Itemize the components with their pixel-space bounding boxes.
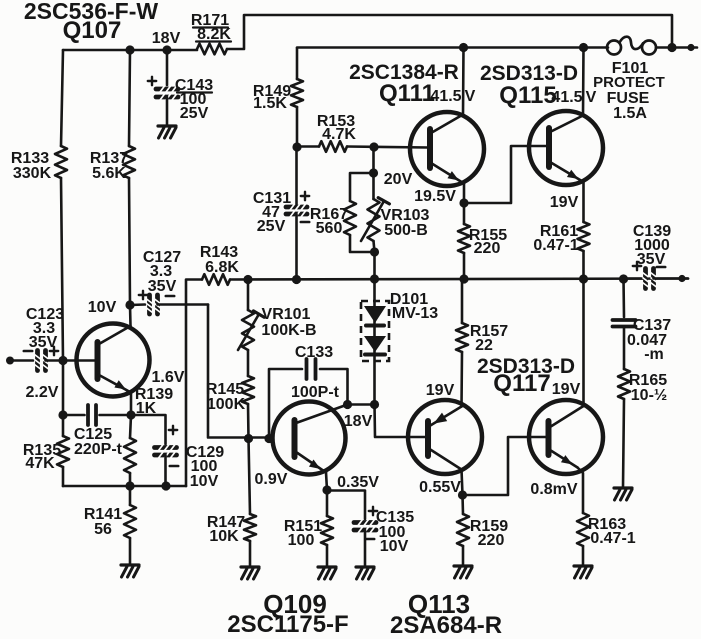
- label 2SD313-D (Q115): [480, 62, 578, 85]
- label 3.3 (C127): [150, 263, 172, 280]
- label C127: [143, 249, 181, 266]
- label 1K: [136, 400, 157, 417]
- label R139: [135, 386, 173, 403]
- label 19V (Q115): [550, 194, 579, 211]
- label 10V (C129): [190, 473, 219, 490]
- label C143: [175, 77, 213, 94]
- label 0.047 (C137): [627, 332, 667, 349]
- node bus junction VR103/D101: [370, 274, 379, 283]
- label 560 (R167): [316, 220, 343, 237]
- resistor R165: [618, 369, 630, 487]
- wire Q117 collector: [550, 279, 584, 427]
- label 2SC1175-F: [227, 611, 348, 638]
- label 100K (R145): [207, 396, 246, 413]
- svg-text:0.47-1: 0.47-1: [533, 237, 578, 254]
- node 18V junction D101 bottom: [370, 400, 379, 409]
- label + C131: [301, 192, 309, 200]
- svg-text:V: V: [586, 89, 597, 106]
- wire Q113 emitter (top): [430, 352, 463, 426]
- label + C143: [148, 77, 156, 85]
- label 47 (C131): [262, 204, 280, 221]
- svg-text:100K: 100K: [207, 396, 246, 413]
- svg-text:2SA684-R: 2SA684-R: [390, 612, 502, 639]
- capacitor C131: [286, 147, 307, 279]
- label Q109 (bottom): [263, 589, 327, 619]
- label R161: [540, 223, 578, 240]
- node junction Q109 emitter/R151/C135: [322, 485, 331, 494]
- svg-text:35V: 35V: [148, 278, 177, 295]
- svg-text:500-B: 500-B: [384, 222, 428, 239]
- svg-text:56: 56: [94, 521, 112, 538]
- label 20V: [384, 171, 413, 188]
- label 100 (R151): [288, 532, 315, 549]
- label C137: [633, 317, 671, 334]
- label 10V: [88, 299, 117, 316]
- node 20V: [369, 168, 378, 177]
- label + C127: [139, 291, 147, 299]
- label 10V (C135): [380, 538, 409, 555]
- svg-text:C133: C133: [295, 344, 333, 361]
- svg-text:35V: 35V: [637, 251, 666, 268]
- label 220P-t: [74, 441, 123, 458]
- label R167: [310, 206, 348, 223]
- svg-text:4.7K: 4.7K: [322, 126, 356, 143]
- svg-text:19V: 19V: [426, 382, 455, 399]
- fuse F101: [607, 37, 656, 55]
- transistor Q109: [273, 402, 346, 475]
- label 2SC1384-R: [349, 61, 459, 84]
- label 220 (R159): [478, 532, 505, 549]
- label + C139: [633, 262, 641, 270]
- resistor R151: [321, 490, 333, 566]
- svg-text:Q117: Q117: [493, 370, 550, 397]
- capacitor C137: [613, 279, 636, 369]
- svg-text:220: 220: [474, 240, 501, 257]
- label 100 (C135): [379, 524, 406, 541]
- label + C135: [369, 507, 377, 515]
- label 35V (C139): [637, 251, 666, 268]
- node bus junction VR101: [243, 275, 252, 284]
- wire Q115 collector: [550, 48, 584, 133]
- potentiometer VR101: [238, 280, 264, 377]
- label 2.2V: [26, 384, 59, 401]
- wire Q111 emitter to Q115 base: [464, 146, 547, 203]
- label 0.47-1 (R163): [590, 530, 635, 547]
- svg-text:0.9V: 0.9V: [255, 471, 288, 488]
- node terminal input: [6, 357, 14, 365]
- wire C133 loop: [269, 359, 348, 439]
- wire R149 to node: [296, 107, 299, 147]
- label C123: [26, 306, 64, 323]
- transistor Q117: [529, 400, 603, 474]
- capacitor C129: [131, 415, 177, 486]
- svg-text:0.35V: 0.35V: [337, 474, 379, 491]
- label R151: [284, 518, 322, 535]
- capacitor C125: [63, 405, 131, 425]
- label 19V (Q113): [426, 382, 455, 399]
- resistor R155: [458, 203, 470, 279]
- svg-text:0.55V: 0.55V: [419, 479, 461, 496]
- node junction fuse/top-wire: [667, 43, 676, 52]
- wire emitter bottom rail: [63, 485, 186, 488]
- label 47K: [25, 455, 55, 472]
- ground (R163): [574, 566, 592, 578]
- label R137: [90, 150, 128, 167]
- label F101: [612, 60, 649, 77]
- label Q117: [493, 370, 550, 397]
- label 2SD313-D (Q117): [477, 355, 575, 378]
- svg-text:100: 100: [288, 532, 315, 549]
- label - C139: [657, 266, 665, 269]
- svg-text:V: V: [465, 88, 476, 105]
- ground (C143): [158, 126, 176, 138]
- wire R153 lead left: [297, 145, 319, 148]
- label 56: [94, 521, 112, 538]
- label R155: [469, 227, 507, 244]
- svg-text:560: 560: [316, 220, 343, 237]
- wire Q107 emitter: [99, 375, 131, 415]
- label 25V (C131): [257, 218, 286, 235]
- label 41.5V (Q111): [430, 88, 475, 105]
- svg-text:41.5: 41.5: [551, 89, 582, 106]
- node junction Q111 emitter/R155/Q115 base: [459, 198, 468, 207]
- ground (R159): [454, 566, 472, 578]
- node 18V junction (C143): [162, 45, 171, 54]
- wire 18V node segment: [348, 403, 375, 406]
- label 0.47-1 (R161): [533, 237, 578, 254]
- resistor R159: [457, 495, 469, 565]
- svg-text:220P-t: 220P-t: [74, 441, 123, 458]
- label 100K-B: [261, 322, 316, 339]
- svg-text:10V: 10V: [380, 538, 409, 555]
- svg-text:25V: 25V: [257, 218, 286, 235]
- svg-text:2SC1175-F: 2SC1175-F: [227, 611, 348, 638]
- svg-text:10V: 10V: [190, 473, 219, 490]
- capacitor C135: [327, 491, 376, 567]
- label + C129: [169, 426, 177, 434]
- node bus junction C131: [292, 275, 301, 284]
- svg-text:25V: 25V: [180, 105, 209, 122]
- label 19V (Q117): [552, 381, 581, 398]
- capacitor C127: [130, 295, 208, 314]
- node terminal speaker +: [687, 44, 697, 51]
- svg-text:VR101: VR101: [262, 306, 311, 323]
- label 8.2K: [196, 26, 231, 43]
- resistor R163: [577, 513, 589, 565]
- svg-text:Q115: Q115: [499, 82, 556, 109]
- node rail junction Q111 collector: [459, 43, 468, 52]
- svg-text:19V: 19V: [550, 194, 579, 211]
- wire Q111 collector: [431, 48, 464, 134]
- label VR103: [381, 207, 430, 224]
- resistor R137: [123, 50, 135, 305]
- svg-text:Q107: Q107: [63, 17, 122, 44]
- wire R167 bottom lead: [350, 235, 375, 252]
- wire Q109 collector: [296, 405, 348, 424]
- svg-text:0.8mV: 0.8mV: [530, 481, 577, 498]
- label C135: [376, 509, 414, 526]
- label 25V (C143): [180, 105, 209, 122]
- node 18V junction (R137/Q107 collector): [125, 45, 134, 54]
- label R157: [470, 323, 508, 340]
- svg-text:100K-B: 100K-B: [261, 322, 316, 339]
- label 6.8K: [205, 259, 239, 276]
- label R143: [200, 244, 238, 261]
- node junction C133/Q109 base wire: [264, 434, 273, 443]
- diode D101b: [364, 336, 386, 355]
- label 100P-t (C133): [291, 384, 340, 401]
- resistor R145: [242, 376, 254, 439]
- svg-text:20V: 20V: [384, 171, 413, 188]
- transistor Q107: [77, 324, 150, 397]
- wire R153 to Q111 base: [347, 147, 428, 148]
- ground (R147): [241, 567, 259, 579]
- node bus junction R161/Q117 collector: [579, 274, 588, 283]
- label 35V (C123): [29, 334, 58, 351]
- label 1.5A: [613, 105, 647, 122]
- svg-text:10V: 10V: [88, 299, 117, 316]
- label 18V (Q109 collector): [344, 413, 373, 430]
- transistor Q113: [408, 400, 482, 474]
- svg-text:330K: 330K: [13, 165, 52, 182]
- label 500-B: [384, 222, 428, 239]
- label C131: [253, 190, 291, 207]
- label - C135: [366, 538, 374, 541]
- resistor R133: [55, 50, 67, 360]
- label Q111: [379, 80, 435, 107]
- wire Q111 emitter: [431, 163, 464, 203]
- label - C123: [24, 350, 32, 353]
- node junction C123/R133/Q107 base: [58, 356, 67, 365]
- ground (R151): [318, 567, 336, 579]
- label VR101: [262, 306, 311, 323]
- label 220 (R155): [474, 240, 501, 257]
- label R171: [191, 12, 229, 29]
- node 10V junction: [125, 300, 134, 309]
- label FUSE: [607, 90, 650, 107]
- capacitor C143: [156, 50, 178, 125]
- label 1.6V: [152, 369, 185, 386]
- label - C131: [301, 221, 309, 224]
- resistor R157: [456, 279, 468, 352]
- wire output bus: [230, 279, 688, 280]
- label R147: [207, 514, 245, 531]
- label 2SA684-R: [390, 612, 502, 639]
- label 2SC536-F-W: [24, 0, 158, 24]
- label C129: [186, 444, 224, 461]
- wire R143 left arm: [186, 280, 202, 487]
- svg-text:10-½: 10-½: [631, 387, 667, 404]
- svg-text:-m: -m: [644, 346, 664, 363]
- wire C127 to Q109 base: [208, 305, 268, 438]
- node junction Q113 collector/R159: [458, 490, 467, 499]
- label 1000 (C139): [634, 237, 670, 254]
- svg-text:Q111: Q111: [379, 80, 435, 107]
- svg-text:19.5V: 19.5V: [414, 188, 456, 205]
- label 22 (R157): [475, 337, 493, 354]
- label + C123: [50, 347, 58, 355]
- node junction C129 bottom: [161, 481, 170, 490]
- node junction C125/R135: [58, 410, 67, 419]
- node junction R153/Q111 base/20V: [369, 142, 378, 151]
- label 10K (R147): [209, 528, 239, 545]
- svg-text:18V: 18V: [344, 413, 373, 430]
- label 0.8mV: [530, 481, 577, 498]
- label PROTECT: [593, 74, 665, 91]
- svg-text:100P-t: 100P-t: [291, 384, 340, 401]
- label - C127: [166, 295, 174, 298]
- svg-text:10K: 10K: [209, 528, 239, 545]
- node junction R149/R153/C131: [292, 142, 301, 151]
- label 0.55V: [419, 479, 461, 496]
- wire R167 top lead: [350, 173, 374, 201]
- wire Q109 emitter: [296, 452, 327, 490]
- label -m (C137): [644, 346, 664, 363]
- resistor R147: [244, 439, 256, 567]
- capacitor C123: [13, 351, 63, 371]
- label R153: [317, 113, 355, 130]
- wire Q115 emitter: [550, 162, 584, 222]
- ground (R165): [614, 488, 632, 500]
- wire fuse to output terminal: [656, 46, 688, 49]
- wire D101 chain: [373, 279, 376, 405]
- diode D101 dashed box: [361, 301, 389, 361]
- label 41.5V (Q115): [551, 89, 596, 106]
- label 3.3 (C123): [33, 320, 55, 337]
- label 330K: [13, 165, 52, 182]
- wire R133 node to C125: [62, 361, 65, 416]
- svg-text:2.2V: 2.2V: [26, 384, 59, 401]
- node bus junction C137: [619, 274, 628, 283]
- svg-text:MV-13: MV-13: [392, 305, 438, 322]
- label 100 (C129): [191, 458, 218, 475]
- node junction Q107 emitter/R139/C125: [126, 410, 135, 419]
- label 1.5K: [253, 95, 287, 112]
- label 19.5V: [414, 188, 456, 205]
- label 5.6K: [92, 165, 126, 182]
- wire Q107 base: [63, 359, 97, 362]
- ground (C135): [356, 567, 374, 579]
- wire D101 node to Q113 base: [375, 405, 427, 438]
- wire 18V rail top-left: [63, 49, 197, 52]
- label MV-13: [392, 305, 438, 322]
- node terminal output: [678, 275, 685, 282]
- svg-text:18V: 18V: [152, 30, 181, 47]
- wire Q107 collector: [99, 305, 131, 344]
- wire Q117 emitter: [550, 450, 583, 513]
- node junction VR103/R167: [370, 247, 379, 256]
- label R133: [11, 150, 49, 167]
- label 4.7K: [322, 126, 356, 143]
- svg-text:19V: 19V: [552, 381, 581, 398]
- svg-text:6.8K: 6.8K: [205, 259, 239, 276]
- capacitor C139: [624, 269, 689, 289]
- resistor R153: [319, 141, 347, 152]
- label D101: [390, 291, 428, 308]
- label C139: [633, 223, 671, 240]
- label 18V: [152, 30, 181, 47]
- transistor Q115: [529, 111, 603, 185]
- wire Q113 collector to Q117 base: [463, 437, 547, 495]
- label 100 (C143): [180, 91, 207, 108]
- label R145: [206, 381, 244, 398]
- svg-text:PROTECT: PROTECT: [593, 74, 665, 91]
- label 0.35V: [337, 474, 379, 491]
- label Q113 (bottom): [408, 589, 470, 619]
- resistor R143: [202, 274, 230, 285]
- label R163: [588, 516, 626, 533]
- svg-text:41.5: 41.5: [430, 88, 461, 105]
- svg-text:22: 22: [475, 337, 493, 354]
- wire collector rail: [297, 48, 608, 80]
- resistor R149: [291, 79, 303, 107]
- resistor R167: [344, 201, 356, 235]
- label - C129: [170, 465, 178, 468]
- label R159: [470, 518, 508, 535]
- label C133: [295, 344, 333, 361]
- transistor Q111: [410, 112, 484, 186]
- wire VR103 to bus: [373, 252, 376, 279]
- label R165: [629, 372, 667, 389]
- resistor R171: [197, 44, 227, 55]
- diode D101a: [364, 306, 386, 326]
- svg-text:5.6K: 5.6K: [92, 165, 126, 182]
- ground (R141): [121, 565, 139, 577]
- svg-text:47K: 47K: [25, 455, 55, 472]
- svg-text:1.5K: 1.5K: [253, 95, 287, 112]
- potentiometer VR103: [361, 173, 389, 252]
- wire Q113 collector (bottom): [430, 449, 463, 495]
- wire base node to 20V node: [372, 147, 375, 173]
- node bus junction R155: [459, 274, 468, 283]
- resistor R139: [124, 415, 136, 486]
- label Q107: [63, 17, 122, 44]
- node junction Q109 collector/C133: [343, 400, 352, 409]
- label 10-1/2 (R165): [631, 387, 667, 404]
- label Q115: [499, 82, 556, 109]
- svg-text:35V: 35V: [29, 334, 58, 351]
- label 35V (C127): [148, 278, 177, 295]
- svg-text:220: 220: [478, 532, 505, 549]
- node junction R139/R141: [125, 481, 134, 490]
- node junction R145/R147/Q109 base wire: [244, 434, 253, 443]
- label R135: [23, 442, 61, 459]
- label R141: [84, 506, 122, 523]
- node rail junction Q115 collector: [579, 43, 588, 52]
- svg-text:1.5A: 1.5A: [613, 105, 647, 122]
- resistor R135: [57, 415, 69, 486]
- svg-text:0.47-1: 0.47-1: [590, 530, 635, 547]
- label 0.9V: [255, 471, 288, 488]
- resistor R141: [124, 486, 136, 564]
- resistor R161: [578, 222, 590, 279]
- label R149: [253, 83, 291, 100]
- svg-text:1.6V: 1.6V: [152, 369, 185, 386]
- wire R171 to top rail: [227, 15, 672, 49]
- label C125: [74, 426, 112, 443]
